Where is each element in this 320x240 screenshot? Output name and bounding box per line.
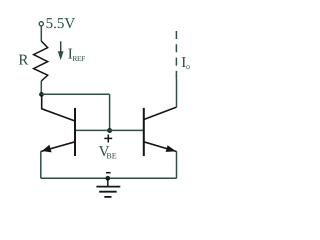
transistor Q2 collector lead [144,107,177,119]
top wire node A to right [42,93,110,95]
wire Q2 emitter down [176,151,178,178]
minus sign VBE polarity [106,172,111,174]
transistor Q1 collector lead [42,95,75,121]
svg-text:o: o [186,62,190,71]
node A junction dot [39,92,44,97]
terminal 5.5V supply [39,22,43,26]
transistor Q2 base bar [143,108,145,156]
wire Q1 emitter down [40,151,42,178]
transistor Q1 emitter lead [41,142,75,152]
wire supply to resistor [40,26,42,41]
transistor Q1 emitter arrowhead [42,145,52,153]
base node junction dot [107,128,112,133]
resistor R [34,41,48,81]
wire down from top wire to base node [109,94,111,130]
ground symbol [96,178,120,197]
current arrow IREF [58,41,64,60]
svg-text:REF: REF [72,54,85,63]
wire Q2 collector up [176,79,178,107]
wire resistor to node A [40,81,42,94]
bottom wire [41,177,177,179]
base wire between Q1 and Q2 [75,129,144,131]
dashed output current line Io [175,31,177,79]
plus sign VBE polarity [104,135,112,143]
svg-text:R: R [18,52,28,68]
svg-text:BE: BE [106,151,116,160]
label IREF [68,47,85,63]
svg-text:5.5V: 5.5V [46,16,76,32]
ground junction dot [105,176,110,181]
transistor Q2 emitter arrowhead [166,145,177,152]
label Io [181,55,190,71]
transistor Q2 emitter lead [144,142,177,152]
transistor Q1 base bar [74,108,76,156]
label VBE [99,144,117,160]
